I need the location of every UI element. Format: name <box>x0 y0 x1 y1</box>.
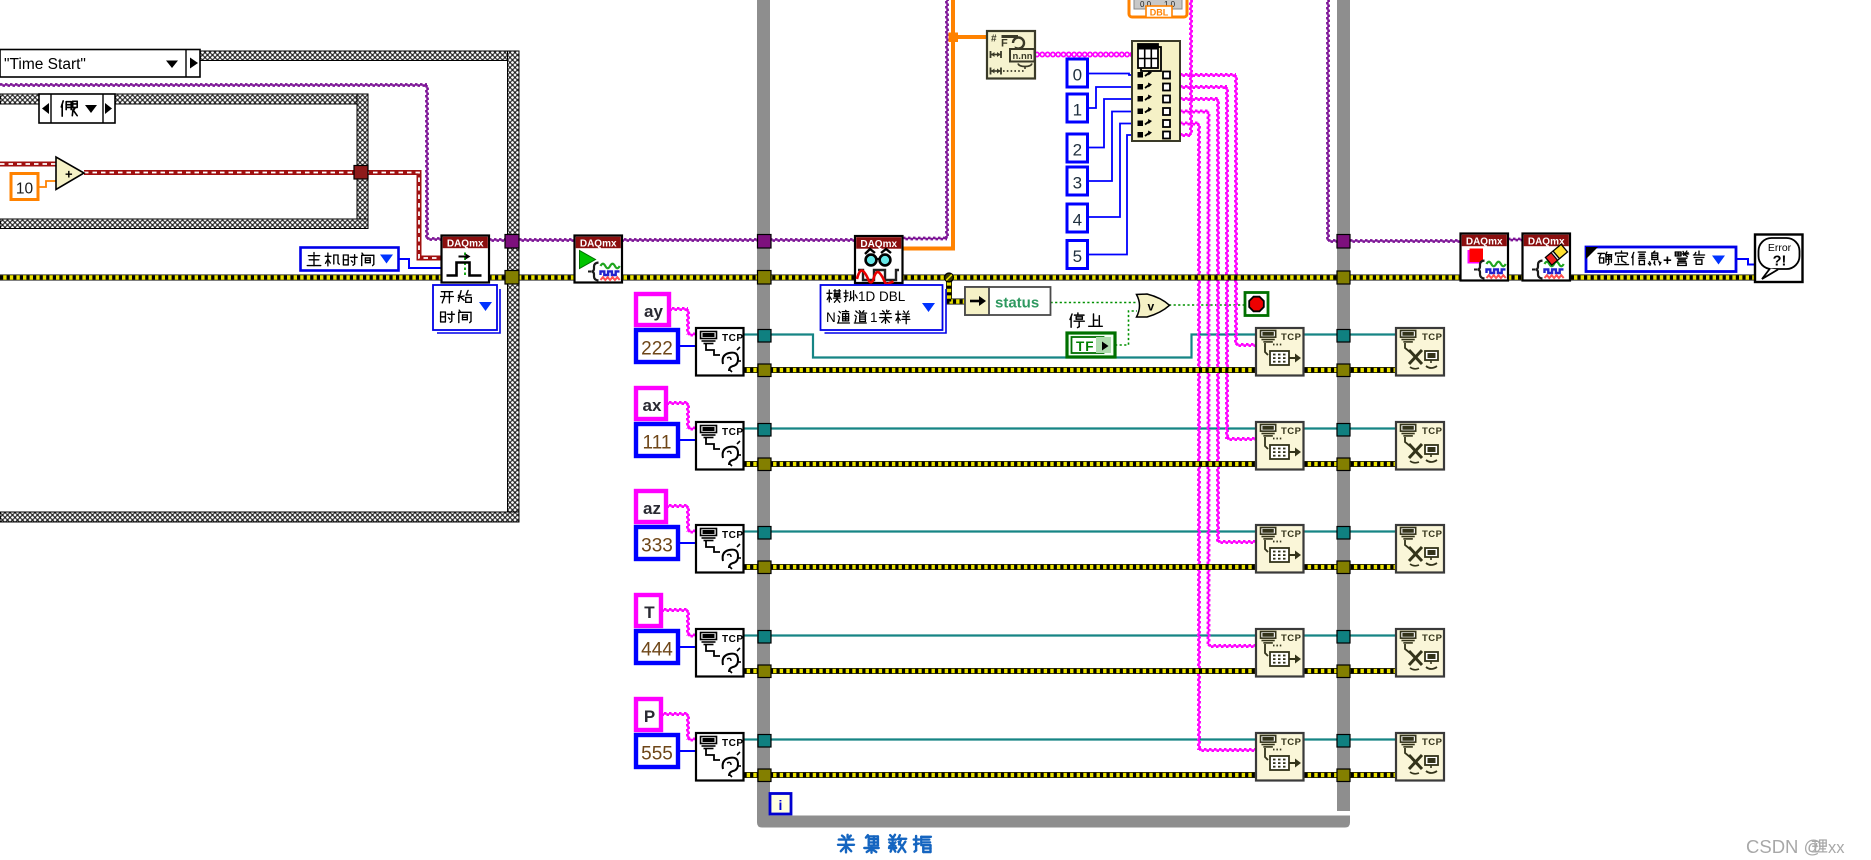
while loop bottom border <box>757 816 1350 828</box>
svg-text:+: + <box>1663 252 1672 269</box>
svg-text:#: # <box>991 34 997 45</box>
index array node <box>1132 41 1180 141</box>
svg-text:+: + <box>65 167 73 182</box>
unbundle by name: status <box>965 287 1051 315</box>
svg-text:CSDN @: CSDN @ <box>1746 836 1822 857</box>
tunnel: olive error row 3 on loop right border <box>1337 561 1350 574</box>
wire: purple task from read node up out of crop <box>903 238 947 240</box>
tunnel: olive error row 5 on loop left border <box>758 769 771 782</box>
wire: teal connection row 1 inside loop <box>770 335 1256 358</box>
dropdown 主机时间 host-time selector <box>301 248 399 271</box>
dropdown 开始时间 selector below timing node <box>437 289 500 333</box>
wire: blue constant 3 to index array <box>1087 112 1132 182</box>
svg-text:ax: ax <box>643 396 662 415</box>
TCP listen node row 1 <box>696 328 744 376</box>
wire: teal connection row 1 left segment <box>744 333 759 335</box>
string constant az <box>636 491 666 522</box>
svg-text:TCP: TCP <box>722 634 744 645</box>
TCP write node row 4 <box>1256 629 1304 677</box>
tunnel: purple on loop right border <box>1337 235 1350 249</box>
wire: green OR output to loop condition <box>1169 304 1245 306</box>
wire: red dashed from add output to DAQmx timing node <box>84 173 442 259</box>
wire: magenta index output 5 to TCP write row 5 <box>1180 123 1199 125</box>
svg-text:DAQmx: DAQmx <box>447 239 484 250</box>
outer case structure "Time Start" top border <box>197 51 519 61</box>
svg-text:TCP: TCP <box>1422 426 1443 437</box>
TCP listen node row 5 <box>696 733 744 781</box>
outer case structure bottom border <box>0 512 519 522</box>
svg-text:ay: ay <box>644 302 663 321</box>
wire: purple DAQmx task wire left section <box>0 84 427 86</box>
OR gate <box>1137 294 1170 317</box>
tunnel: olive error on loop right border (top) <box>1337 271 1350 284</box>
wire: teal connection row 5 inside loop <box>770 738 1256 740</box>
tunnel: olive error on outer case border <box>505 271 519 285</box>
svg-text:"Time Start": "Time Start" <box>4 56 86 73</box>
svg-text:0: 0 <box>1073 66 1082 85</box>
wire: blue constant 4 to index array <box>1087 124 1132 218</box>
wire: error wire main horizontal <box>0 275 1757 281</box>
wire: magenta label ax to TCP listen row 2 <box>664 402 688 404</box>
junction dot on error wire <box>945 273 954 282</box>
DAQmx stop node <box>1461 234 1509 281</box>
numeric constant 0 <box>1067 59 1088 87</box>
tunnel: purple on outer case border <box>505 235 519 249</box>
svg-text:status: status <box>995 295 1039 312</box>
svg-text:4: 4 <box>1073 211 1082 230</box>
wire: teal connection row 2 to TCP close <box>1304 427 1397 429</box>
boolean control terminal TF (stop) <box>1067 333 1115 357</box>
svg-text:1: 1 <box>870 310 878 325</box>
svg-text:N: N <box>826 310 836 325</box>
loop condition stop terminal <box>1245 293 1268 316</box>
svg-text:333: 333 <box>641 536 673 557</box>
svg-text:222: 222 <box>641 339 673 360</box>
wire: magenta index output 2 to TCP write row 2 <box>1180 86 1227 88</box>
tunnel: olive error row 4 on loop left border <box>758 665 771 678</box>
svg-text:TCP: TCP <box>722 530 744 541</box>
svg-text:DBL: DBL <box>1150 8 1169 18</box>
dropdown 模拟1D DBL N通道1采样 polymorphic selector <box>825 289 947 333</box>
svg-text:xx: xx <box>1828 839 1845 857</box>
string constant P <box>636 699 661 730</box>
svg-text:TCP: TCP <box>722 333 744 344</box>
TCP listen node row 3 <box>696 525 744 573</box>
wire: green TF to OR gate <box>1115 311 1137 345</box>
wire: blue port 111 to TCP listen row 2 <box>678 439 696 441</box>
wire: teal connection row 4 to TCP close <box>1304 634 1397 636</box>
wire: orange samples from read node up to format node <box>903 0 953 249</box>
TCP write node row 1 <box>1256 328 1304 376</box>
numeric constant 10 <box>11 174 38 200</box>
TCP close node row 4 <box>1396 629 1444 677</box>
wire: purple task right section to DAQmx stop/clear <box>1350 240 1460 242</box>
wire: teal connection row 3 left segment <box>744 530 759 532</box>
inner case selector label 假 <box>39 94 115 123</box>
wire: teal connection row 2 inside loop <box>770 427 1256 429</box>
numeric constant 333 (port) <box>636 527 678 559</box>
svg-text:2: 2 <box>1073 141 1082 160</box>
tunnel: olive error row 2 on loop right border <box>1337 458 1350 471</box>
wire: teal connection row 5 left segment <box>744 738 759 740</box>
svg-text:v: v <box>1148 300 1155 314</box>
TCP close node row 3 <box>1396 525 1444 573</box>
wire: teal connection row 4 inside loop <box>770 634 1256 636</box>
wire: blue port 222 to TCP listen row 1 <box>678 345 696 347</box>
wire: error row 2 <box>744 461 1397 467</box>
wire: magenta index output 3 to TCP write row 3 <box>1180 98 1218 100</box>
wire: purple task wire middle section <box>489 239 757 241</box>
wire: teal connection row 3 to TCP close <box>1304 530 1397 532</box>
tunnel: teal row 5 on loop right border <box>1337 735 1350 748</box>
simple error handler node <box>1755 235 1803 283</box>
TCP listen node row 4 <box>696 629 744 677</box>
inner case structure (false case) top border <box>0 94 368 104</box>
tunnel: teal row 3 on loop right border <box>1337 527 1350 540</box>
wire: blue port 555 to TCP listen row 5 <box>678 750 696 752</box>
svg-text:T: T <box>644 603 655 622</box>
svg-text:TCP: TCP <box>1422 332 1443 343</box>
svg-text:DAQmx: DAQmx <box>580 239 617 250</box>
svg-text:TCP: TCP <box>1422 633 1443 644</box>
DAQmx clear node <box>1523 234 1571 281</box>
tunnel: red square on inner case border <box>354 166 368 180</box>
svg-text:F: F <box>1001 38 1008 50</box>
format value node (number to fractional string) <box>987 31 1035 79</box>
tunnel: teal row 1 on loop left border <box>758 330 771 343</box>
while loop right border <box>1337 0 1350 811</box>
TCP write node row 5 <box>1256 733 1304 781</box>
add function node <box>56 157 84 190</box>
wire: magenta label az to TCP listen row 3 <box>664 505 688 507</box>
svg-text:az: az <box>643 499 661 518</box>
svg-text:111: 111 <box>643 433 672 454</box>
tunnel: olive error row 5 on loop right border <box>1337 769 1350 782</box>
svg-text:i: i <box>779 797 783 813</box>
iteration terminal i <box>770 794 791 815</box>
svg-text:TCP: TCP <box>1281 737 1302 748</box>
wire: blue 主机时间 to timing node <box>398 259 442 268</box>
svg-text:n.nn: n.nn <box>1013 51 1033 62</box>
string constant ay <box>636 294 669 325</box>
label 采集数据 below loop <box>838 835 854 853</box>
svg-text:DAQmx: DAQmx <box>1466 237 1503 248</box>
tunnel: olive error row 4 on loop right border <box>1337 665 1350 678</box>
wire: red dashed timing wire into add node <box>0 162 56 167</box>
DAQmx start task node <box>575 236 623 283</box>
tunnel: olive error on loop left border <box>758 271 772 285</box>
wire: teal connection row 5 to TCP close <box>1304 738 1397 740</box>
wire: teal connection row 4 left segment <box>744 634 759 636</box>
wire: teal connection row 2 left segment <box>744 427 759 429</box>
TCP listen node row 2 <box>696 422 744 470</box>
TCP close node row 5 <box>1396 733 1444 781</box>
inner case structure right border <box>357 94 368 229</box>
wire: magenta string from format node to index array (chain) <box>1035 52 1039 56</box>
TCP write node row 3 <box>1256 525 1304 573</box>
wire: magenta index output 4 to TCP write row 4 <box>1180 111 1209 113</box>
wire: green status to OR gate <box>1051 302 1138 304</box>
svg-text:?!: ?! <box>1773 254 1787 270</box>
svg-text:TCP: TCP <box>1422 529 1443 540</box>
DAQmx timing node 开始时间 <box>442 236 490 283</box>
numeric constant 2 <box>1067 134 1088 162</box>
tunnel: olive error row 2 on loop left border <box>758 458 771 471</box>
wire: purple task descending to right loop tunnel <box>1327 0 1329 241</box>
wire: teal connection row 3 inside loop <box>770 530 1256 532</box>
svg-text:3: 3 <box>1073 174 1082 193</box>
svg-text:1: 1 <box>1073 101 1082 120</box>
wire: orange constant 10 to add node <box>38 181 56 187</box>
tunnel: purple on loop left border <box>758 235 772 249</box>
numeric constant 4 <box>1067 204 1088 232</box>
svg-text:TCP: TCP <box>1281 633 1302 644</box>
tunnel: teal row 1 on loop right border <box>1337 330 1350 343</box>
wire: magenta index output 6 upward out of crop <box>1180 134 1191 136</box>
tunnel: olive error row 1 on loop right border <box>1337 364 1350 377</box>
numeric constant 222 (port) <box>636 330 678 362</box>
tunnel: teal row 4 on loop left border <box>758 631 771 644</box>
wire: blue constant 0 to index array <box>1087 74 1132 76</box>
svg-text:10: 10 <box>16 181 34 198</box>
svg-text:555: 555 <box>641 744 673 765</box>
tunnel: olive error row 3 on loop left border <box>758 561 771 574</box>
DBL numeric indicator (cropped at top) <box>1129 0 1187 17</box>
numeric constant 111 (port) <box>636 424 678 456</box>
wire: error row 3 <box>744 564 1397 570</box>
label 停止 for stop button <box>1070 313 1084 328</box>
tunnel: teal row 2 on loop right border <box>1337 424 1350 437</box>
outer case structure right border <box>508 51 520 522</box>
wire: magenta label ay to TCP listen row 1 <box>667 308 688 310</box>
inner case structure bottom border <box>0 219 368 229</box>
tunnel: teal row 5 on loop left border <box>758 735 771 748</box>
numeric constant 555 (port) <box>636 735 678 767</box>
wire: blue constant 5 to index array <box>1087 135 1132 255</box>
while loop left border <box>757 0 770 818</box>
svg-text:TCP: TCP <box>722 427 744 438</box>
svg-text:TCP: TCP <box>1281 529 1302 540</box>
svg-text:TCP: TCP <box>1422 737 1443 748</box>
wire: magenta label P to TCP listen row 5 <box>659 713 688 715</box>
TCP close node row 2 <box>1396 422 1444 470</box>
TCP write node row 2 <box>1256 422 1304 470</box>
numeric constant 444 (port) <box>636 631 678 663</box>
string constant ax <box>636 388 666 419</box>
tunnel: teal row 2 on loop left border <box>758 424 771 437</box>
wire: magenta label T to TCP listen row 4 <box>659 609 688 611</box>
svg-text:TCP: TCP <box>722 738 744 749</box>
numeric constant 1 <box>1067 94 1088 122</box>
wire: teal connection row 1 to TCP close <box>1304 333 1397 335</box>
tunnel: teal row 3 on loop left border <box>758 527 771 540</box>
wire: blue constant 1 to index array <box>1087 87 1132 108</box>
wire: blue constant 2 to index array <box>1087 99 1132 148</box>
wire: error row 1 <box>744 367 1397 373</box>
wire: error branch to status unbundle <box>949 279 965 302</box>
svg-text:P: P <box>644 707 655 726</box>
wire: error row 4 <box>744 668 1397 674</box>
tunnel: olive error row 1 on loop left border <box>758 364 771 377</box>
svg-text:1D DBL: 1D DBL <box>858 289 906 304</box>
string constant T <box>636 595 661 626</box>
svg-text:TCP: TCP <box>1281 332 1302 343</box>
numeric constant 5 <box>1067 241 1088 269</box>
wire: error row 5 <box>744 772 1397 778</box>
wire: blue port 333 to TCP listen row 3 <box>678 542 696 544</box>
dropdown 确定信息+警告 simple error handler selector <box>1586 247 1736 272</box>
svg-text:5: 5 <box>1073 247 1082 266</box>
case selector label "Time Start" <box>0 50 200 78</box>
svg-text:Error: Error <box>1768 242 1792 254</box>
wire: blue port 444 to TCP listen row 4 <box>678 646 696 648</box>
svg-text:444: 444 <box>641 640 673 661</box>
svg-text:TF: TF <box>1076 339 1095 354</box>
TCP close node row 1 <box>1396 328 1444 376</box>
wire: blue selector to error handler node <box>1736 259 1756 265</box>
numeric constant 3 <box>1067 167 1088 195</box>
wire: magenta index output 1 to TCP write row 1 <box>1180 74 1236 76</box>
tunnel: teal row 4 on loop right border <box>1337 631 1350 644</box>
svg-text:DAQmx: DAQmx <box>860 239 897 250</box>
svg-text:TCP: TCP <box>1281 426 1302 437</box>
DAQmx read node <box>855 236 903 283</box>
